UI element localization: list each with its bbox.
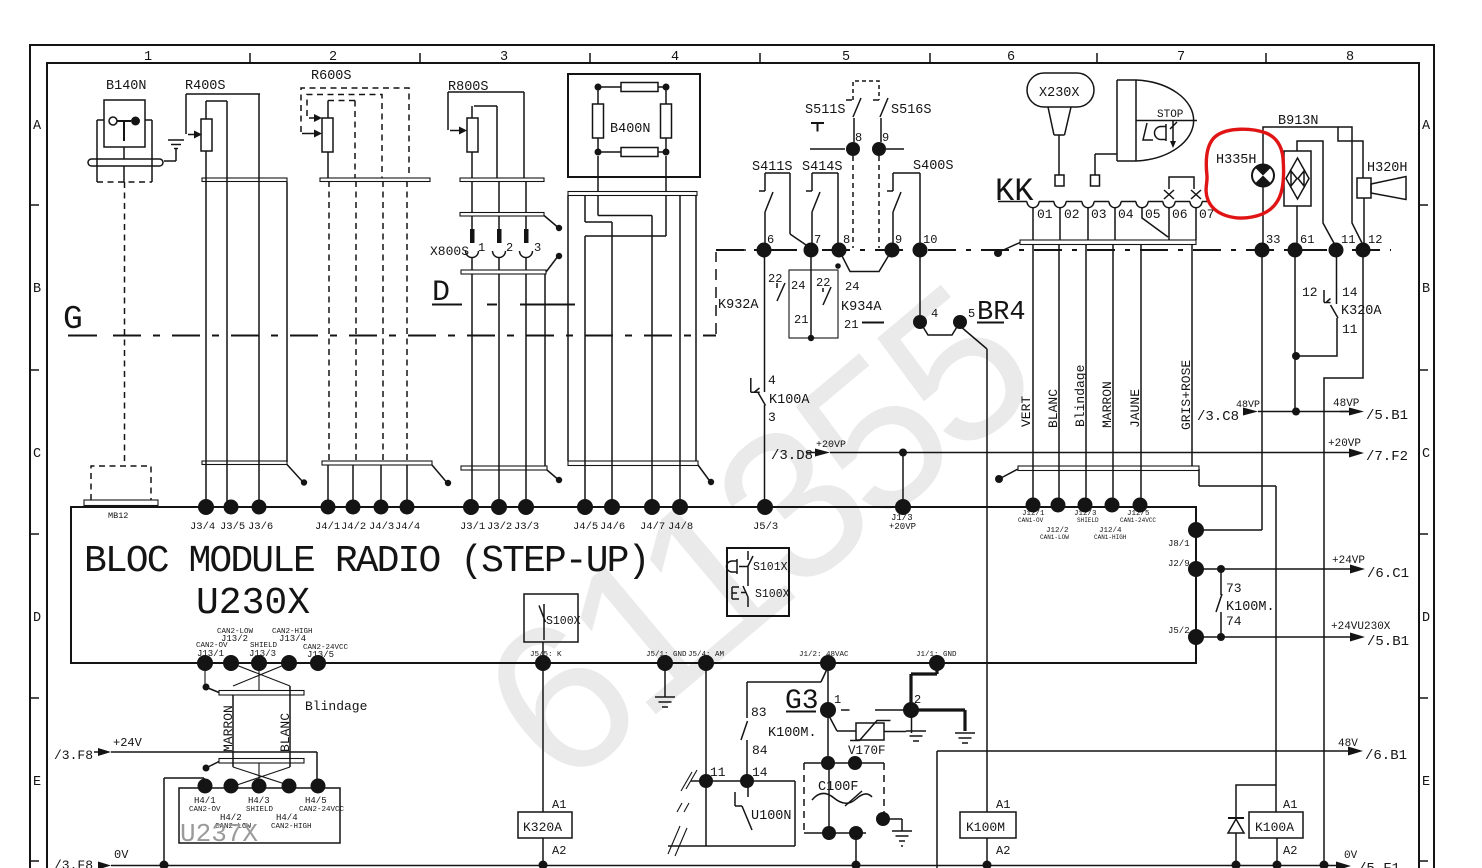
- svg-text:SHIELD: SHIELD: [1077, 517, 1099, 524]
- svg-text:J3/5: J3/5: [220, 521, 245, 533]
- svg-text:+24VU230X: +24VU230X: [1331, 621, 1391, 633]
- svg-text:14: 14: [1342, 285, 1358, 300]
- svg-text:J1/2: 48VAC: J1/2: 48VAC: [799, 651, 849, 659]
- svg-text:11: 11: [710, 765, 726, 780]
- svg-text:S516S: S516S: [891, 103, 932, 118]
- svg-text:X230X: X230X: [1039, 86, 1080, 101]
- svg-text:JAUNE: JAUNE: [1128, 389, 1143, 428]
- svg-text:J4/4: J4/4: [395, 521, 420, 533]
- svg-text:24: 24: [845, 280, 859, 294]
- svg-text:/6.B1: /6.B1: [1365, 748, 1407, 764]
- svg-text:3: 3: [768, 410, 776, 425]
- svg-text:C: C: [33, 447, 41, 462]
- svg-text:11: 11: [1342, 322, 1358, 337]
- svg-text:8: 8: [855, 131, 862, 145]
- svg-text:9: 9: [882, 131, 889, 145]
- svg-text:MB12: MB12: [108, 511, 128, 521]
- svg-text:01: 01: [1037, 207, 1053, 222]
- svg-text:CAN2-OV: CAN2-OV: [189, 806, 221, 814]
- svg-text:/7.F2: /7.F2: [1366, 449, 1408, 465]
- svg-text:H4/3: H4/3: [248, 796, 270, 806]
- svg-text:S511S: S511S: [805, 103, 846, 118]
- svg-text:CAN1-24VCC: CAN1-24VCC: [1120, 517, 1156, 524]
- svg-text:J3/6: J3/6: [248, 521, 273, 533]
- svg-text:B140N: B140N: [106, 79, 147, 94]
- svg-text:12: 12: [1368, 233, 1382, 247]
- svg-text:J3/2: J3/2: [487, 521, 512, 533]
- svg-text:6: 6: [767, 233, 774, 247]
- svg-text:5: 5: [842, 50, 850, 65]
- svg-text:J13/3: J13/3: [249, 649, 276, 659]
- svg-text:Blindage: Blindage: [1073, 365, 1088, 427]
- svg-text:6: 6: [1007, 50, 1015, 65]
- svg-text:K100M: K100M: [966, 820, 1005, 835]
- svg-text:A2: A2: [1283, 844, 1297, 858]
- svg-text:K100M.: K100M.: [768, 726, 817, 741]
- svg-text:83: 83: [751, 705, 767, 720]
- svg-text:Blindage: Blindage: [305, 699, 367, 714]
- svg-text:7: 7: [814, 233, 821, 247]
- svg-text:12: 12: [1302, 285, 1318, 300]
- svg-text:73: 73: [1226, 581, 1242, 596]
- svg-text:J5/5: K: J5/5: K: [530, 651, 562, 659]
- svg-text:/3.C8: /3.C8: [1197, 409, 1239, 425]
- svg-text:21: 21: [844, 318, 858, 332]
- svg-text:7: 7: [1177, 50, 1185, 65]
- svg-text:J4/3: J4/3: [369, 521, 394, 533]
- svg-text:BLANC: BLANC: [1046, 389, 1061, 428]
- svg-text:J3/1: J3/1: [460, 521, 485, 533]
- svg-text:1: 1: [144, 50, 152, 65]
- svg-text:K320A: K320A: [523, 820, 562, 835]
- svg-text:+24V: +24V: [113, 736, 143, 750]
- svg-text:S100X: S100X: [546, 615, 581, 628]
- svg-text:CAN1-LOW: CAN1-LOW: [1040, 534, 1069, 541]
- svg-text:CAN2-24VCC: CAN2-24VCC: [299, 806, 345, 814]
- svg-text:22: 22: [768, 272, 782, 286]
- svg-text:J4/2: J4/2: [341, 521, 366, 533]
- svg-text:22: 22: [816, 276, 830, 290]
- svg-text:J4/7: J4/7: [640, 521, 665, 533]
- svg-text:B: B: [33, 282, 41, 297]
- svg-text:H320H: H320H: [1367, 161, 1408, 176]
- svg-text:24: 24: [791, 279, 805, 293]
- svg-text:K100A: K100A: [1255, 820, 1294, 835]
- svg-text:H4/4: H4/4: [276, 813, 298, 823]
- svg-text:/5.F1: /5.F1: [1358, 861, 1400, 868]
- svg-text:A2: A2: [996, 844, 1010, 858]
- svg-text:2: 2: [914, 693, 921, 707]
- svg-text:/5.B1: /5.B1: [1367, 634, 1409, 650]
- svg-text:J13/2: J13/2: [221, 634, 248, 644]
- svg-text:J3/3: J3/3: [514, 521, 539, 533]
- svg-text:74: 74: [1226, 614, 1242, 629]
- svg-text:+20VP: +20VP: [1328, 438, 1361, 450]
- svg-text:R400S: R400S: [185, 79, 226, 94]
- svg-text:9: 9: [895, 233, 902, 247]
- svg-text:+20VP: +20VP: [889, 522, 916, 532]
- svg-text:8: 8: [843, 233, 850, 247]
- svg-text:BLOC MODULE RADIO (STEP-UP): BLOC MODULE RADIO (STEP-UP): [84, 540, 648, 583]
- svg-text:8: 8: [1346, 50, 1354, 65]
- svg-text:A1: A1: [1283, 798, 1297, 812]
- svg-text:VERT: VERT: [1019, 396, 1034, 427]
- svg-text:S100X: S100X: [755, 588, 790, 601]
- svg-text:4: 4: [931, 307, 938, 321]
- svg-text:STOP: STOP: [1157, 109, 1184, 121]
- svg-text:A: A: [33, 119, 42, 134]
- svg-text:61: 61: [1300, 233, 1314, 247]
- svg-text:MARRON: MARRON: [221, 705, 236, 752]
- svg-text:J13/5: J13/5: [307, 650, 334, 660]
- svg-text:GRIS+ROSE: GRIS+ROSE: [1179, 360, 1194, 430]
- svg-text:J4/1: J4/1: [315, 521, 340, 533]
- svg-text:S400S: S400S: [913, 159, 954, 174]
- svg-text:2: 2: [506, 241, 513, 255]
- svg-text:CAN1-OV: CAN1-OV: [1018, 517, 1044, 524]
- svg-text:C: C: [1422, 447, 1430, 462]
- svg-text:J4/8: J4/8: [668, 521, 693, 533]
- svg-text:E: E: [33, 775, 41, 790]
- svg-text:J4/6: J4/6: [600, 521, 625, 533]
- svg-text:CAN1-HIGH: CAN1-HIGH: [1094, 534, 1127, 541]
- svg-text:BLANC: BLANC: [278, 713, 293, 752]
- svg-text:H4/5: H4/5: [305, 796, 327, 806]
- svg-text:3: 3: [534, 241, 541, 255]
- svg-text:5: 5: [968, 307, 975, 321]
- svg-text:J13/4: J13/4: [279, 634, 306, 644]
- svg-text:J5/4: AM: J5/4: AM: [688, 651, 725, 659]
- svg-text:X800S: X800S: [430, 244, 469, 259]
- svg-text:/6.C1: /6.C1: [1367, 566, 1409, 582]
- svg-text:J1/1: GND: J1/1: GND: [916, 651, 957, 659]
- svg-text:84: 84: [752, 743, 768, 758]
- svg-text:J5/1: GND: J5/1: GND: [646, 651, 687, 659]
- svg-text:K100A: K100A: [769, 393, 810, 408]
- svg-text:MARRON: MARRON: [1100, 381, 1115, 428]
- svg-text:R600S: R600S: [311, 69, 352, 84]
- svg-text:/3.D8: /3.D8: [771, 448, 813, 464]
- svg-text:SHIELD: SHIELD: [246, 806, 274, 814]
- svg-text:+20VP: +20VP: [816, 440, 846, 451]
- svg-text:K932A: K932A: [718, 298, 759, 313]
- svg-text:03: 03: [1091, 207, 1107, 222]
- svg-text:H4/1: H4/1: [194, 796, 216, 806]
- svg-text:04: 04: [1118, 207, 1134, 222]
- svg-text:S101X: S101X: [753, 561, 788, 574]
- svg-text:K934A: K934A: [841, 300, 882, 315]
- svg-text:4: 4: [768, 373, 776, 388]
- svg-text:10: 10: [923, 233, 937, 247]
- svg-text:/5.B1: /5.B1: [1366, 408, 1408, 424]
- svg-text:U237X: U237X: [180, 819, 258, 849]
- svg-text:A2: A2: [552, 844, 566, 858]
- svg-text:J5/2: J5/2: [1168, 626, 1190, 636]
- svg-text:K100M.: K100M.: [1226, 600, 1275, 615]
- svg-text:A1: A1: [996, 798, 1010, 812]
- svg-text:J2/9: J2/9: [1168, 559, 1190, 569]
- svg-text:14: 14: [752, 765, 768, 780]
- svg-text:4: 4: [671, 50, 679, 65]
- svg-text:V170F: V170F: [848, 744, 886, 758]
- svg-text:A1: A1: [552, 798, 566, 812]
- svg-text:J5/3: J5/3: [753, 521, 778, 533]
- svg-text:02: 02: [1064, 207, 1080, 222]
- svg-text:G: G: [63, 301, 83, 338]
- svg-text:CAN2-HIGH: CAN2-HIGH: [271, 823, 312, 831]
- svg-text:H335H: H335H: [1216, 153, 1257, 168]
- svg-text:B: B: [1422, 282, 1430, 297]
- svg-text:B400N: B400N: [610, 122, 651, 137]
- svg-text:D: D: [1422, 611, 1430, 626]
- svg-text:33: 33: [1266, 233, 1280, 247]
- svg-text:J8/1: J8/1: [1168, 539, 1190, 549]
- svg-text:A: A: [1422, 119, 1431, 134]
- svg-text:05: 05: [1145, 207, 1161, 222]
- svg-text:11: 11: [1341, 233, 1355, 247]
- svg-text:21: 21: [794, 313, 808, 327]
- svg-text:U100N: U100N: [751, 809, 792, 824]
- svg-text:0V: 0V: [114, 848, 129, 862]
- svg-text:J4/5: J4/5: [573, 521, 598, 533]
- svg-text:D: D: [33, 611, 41, 626]
- svg-text:J13/1: J13/1: [197, 649, 224, 659]
- svg-text:/3.F8: /3.F8: [54, 748, 93, 763]
- svg-text:+24VP: +24VP: [1332, 555, 1365, 567]
- svg-text:J3/4: J3/4: [190, 521, 215, 533]
- svg-text:U230X: U230X: [196, 582, 310, 625]
- svg-text:E: E: [1422, 775, 1430, 790]
- svg-text:0V: 0V: [1344, 850, 1358, 862]
- svg-text:2: 2: [329, 50, 337, 65]
- svg-text:48VP: 48VP: [1333, 398, 1360, 410]
- svg-text:1: 1: [834, 693, 841, 707]
- svg-text:06: 06: [1172, 207, 1188, 222]
- svg-text:1: 1: [478, 241, 485, 255]
- svg-text:3: 3: [500, 50, 508, 65]
- svg-text:/3.F8: /3.F8: [54, 858, 93, 868]
- svg-text:K320A: K320A: [1341, 304, 1382, 319]
